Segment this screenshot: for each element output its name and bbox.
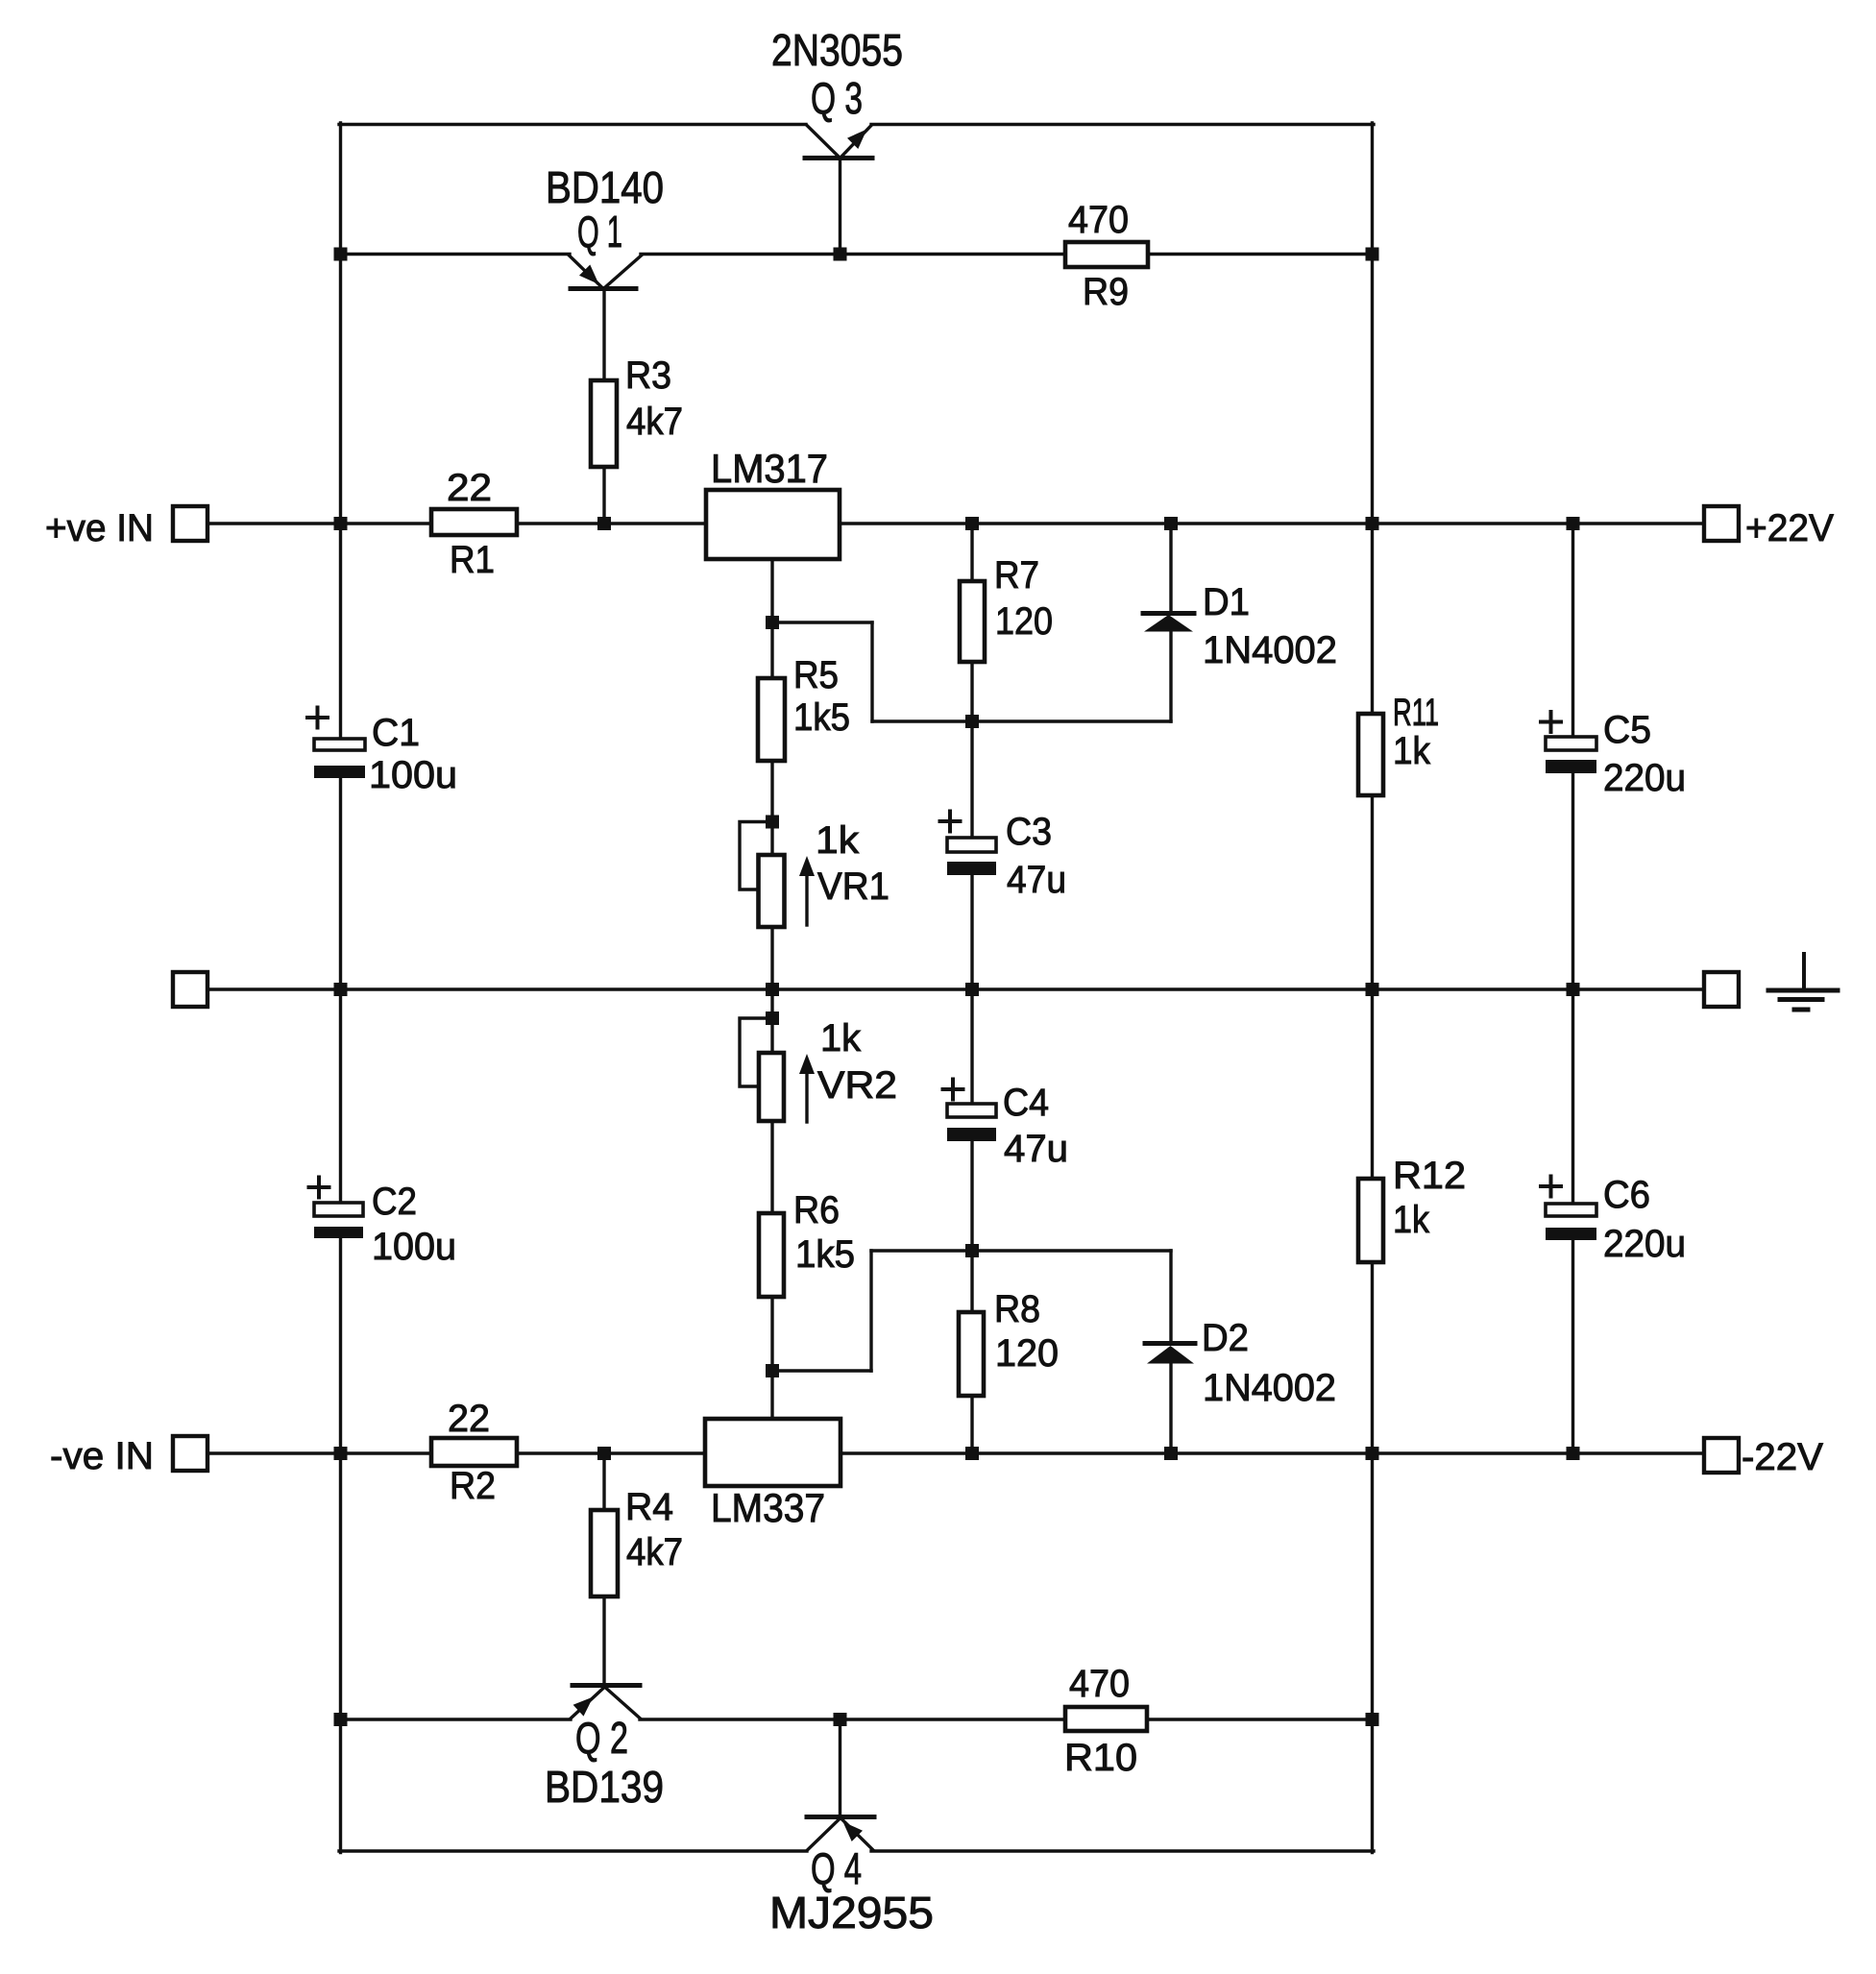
svg-text:R6: R6 <box>793 1189 840 1231</box>
svg-text:R2: R2 <box>450 1465 496 1507</box>
svg-text:1N4002: 1N4002 <box>1203 629 1337 671</box>
svg-text:Q 3: Q 3 <box>811 73 863 123</box>
svg-text:220u: 220u <box>1603 757 1686 799</box>
wire left vertical rail middle (C1 to C2) <box>339 778 342 1203</box>
svg-text:-22V: -22V <box>1742 1436 1823 1478</box>
wire elbow down to D2 cathode <box>1169 1251 1172 1342</box>
ground symbol <box>1768 954 1838 1010</box>
diode D1 1N4002 <box>1143 614 1194 632</box>
wire left vertical rail upper (top corner to C1) <box>339 123 342 739</box>
wire -ve IN rail to R4 <box>602 1453 605 1510</box>
svg-text:100u: 100u <box>369 754 457 796</box>
potentiometer VR1 1k <box>740 822 815 928</box>
svg-text:100u: 100u <box>372 1226 456 1268</box>
wire fifth rail right segment (Q2 collector to R10 to right rail) <box>640 1718 1374 1720</box>
wire R4 to Q2 base <box>602 1596 605 1686</box>
svg-text:Q 1: Q 1 <box>577 207 622 256</box>
wire top rail left segment (Q3 collector rail) <box>339 123 806 126</box>
svg-text:1k: 1k <box>1393 730 1431 772</box>
svg-text:C3: C3 <box>1006 811 1052 853</box>
capacitor C1 100u <box>307 708 365 779</box>
svg-text:2N3055: 2N3055 <box>771 25 903 75</box>
wire ADJ elbow horizontal lower <box>772 1369 871 1372</box>
svg-text:R11: R11 <box>1393 692 1439 734</box>
svg-text:22: 22 <box>447 467 492 509</box>
svg-text:4k7: 4k7 <box>626 1531 683 1573</box>
wire -ve IN rail (net -IN / LM337 row) <box>207 1451 1704 1454</box>
svg-text:C5: C5 <box>1603 709 1651 751</box>
junction dot VR2 top node <box>766 1011 779 1025</box>
svg-text:VR2: VR2 <box>817 1064 897 1107</box>
resistor R12 1k <box>1358 1179 1383 1262</box>
svg-text:+ve IN: +ve IN <box>45 507 154 549</box>
wire right vertical rail (top corner to bottom corner) <box>1371 123 1374 1853</box>
terminal ground output <box>1704 972 1739 1007</box>
svg-text:D2: D2 <box>1202 1317 1249 1359</box>
svg-text:R4: R4 <box>625 1486 673 1528</box>
svg-text:120: 120 <box>995 600 1053 643</box>
transistor Q2 BD139 symbol <box>571 1686 641 1719</box>
wire +22V rail to R7 <box>970 524 973 581</box>
wire node junction horizontal lower (to R8 top and D2 anode) <box>871 1249 1171 1252</box>
resistor R7 120 <box>960 581 985 662</box>
resistor R10 470 <box>1065 1707 1147 1731</box>
svg-text:BD140: BD140 <box>546 162 664 212</box>
wire second rail left segment (to Q1 emitter) <box>339 253 570 256</box>
svg-text:1k: 1k <box>816 819 860 862</box>
terminal +22V output <box>1704 506 1739 541</box>
svg-text:Q 2: Q 2 <box>575 1713 628 1763</box>
svg-text:D1: D1 <box>1203 581 1250 623</box>
transistor Q1 BD140 symbol <box>570 256 642 289</box>
wire C5 branch lower (C5 to ground rail) <box>1571 773 1574 989</box>
diode D2 1N4002 <box>1145 1344 1195 1364</box>
svg-text:R8: R8 <box>994 1288 1040 1330</box>
wire C5 branch upper (+22V rail to C5) <box>1571 524 1574 738</box>
capacitor C4 47u <box>943 1080 997 1142</box>
svg-text:1k: 1k <box>820 1017 862 1060</box>
capacitor C5 220u <box>1541 712 1596 773</box>
junction dot LM317 ADJ node <box>766 616 779 629</box>
svg-text:-ve IN: -ve IN <box>50 1435 154 1477</box>
wire ground rail (net 0V) <box>207 987 1704 990</box>
wire fifth rail left segment (to Q2 emitter) <box>339 1718 571 1720</box>
wire D1 anode down to elbow <box>1169 630 1172 721</box>
svg-text:47u: 47u <box>1007 859 1066 901</box>
terminal -22V output <box>1704 1438 1739 1473</box>
svg-text:47u: 47u <box>1004 1128 1068 1170</box>
svg-text:120: 120 <box>995 1332 1059 1375</box>
capacitor C6 220u <box>1541 1177 1596 1241</box>
wire C6 branch upper (ground rail to C6) <box>1571 989 1574 1204</box>
resistor R9 470 <box>1065 242 1148 267</box>
regulator U1 LM317 box <box>706 490 840 559</box>
resistor R8 120 <box>959 1312 984 1396</box>
wire C3 to ground rail <box>970 875 973 989</box>
transistor Q3 2N3055 symbol <box>805 126 872 158</box>
wire +ve IN rail (net +IN / LM317 row) <box>207 522 1704 524</box>
svg-text:C2: C2 <box>372 1181 417 1223</box>
wire left vertical rail lower (C2 to bottom corner) <box>339 1238 342 1853</box>
svg-text:1k5: 1k5 <box>795 1233 855 1276</box>
junction dots -ve IN rail <box>334 1447 348 1460</box>
wire top rail right segment (Q3 emitter rail) <box>871 123 1374 126</box>
svg-text:VR1: VR1 <box>817 865 889 908</box>
transistor Q4 MJ2955 symbol <box>807 1817 874 1850</box>
svg-text:1N4002: 1N4002 <box>1203 1367 1336 1409</box>
junction dots +ve IN rail <box>334 517 348 530</box>
junction dot R7/C3/D1 node <box>965 715 979 728</box>
svg-text:R9: R9 <box>1083 271 1129 313</box>
junction dot R8/C4/D2 node <box>965 1244 979 1257</box>
wire R8 to -ve IN rail <box>970 1251 973 1453</box>
svg-text:Q 4: Q 4 <box>811 1843 862 1893</box>
wire ground rail to C4 <box>970 989 973 1104</box>
wire C4 to R8 node <box>970 1141 973 1251</box>
terminal left common <box>173 972 207 1007</box>
wire VR2 R6 branch (ground to LM337 ADJ pin) <box>770 989 773 1419</box>
wire second rail right segment (Q1 collector to R9 to right rail) <box>641 253 1374 256</box>
svg-text:1k5: 1k5 <box>793 696 850 739</box>
terminal -ve IN <box>173 1436 207 1471</box>
capacitor C2 100u <box>309 1178 364 1239</box>
svg-text:220u: 220u <box>1603 1223 1686 1265</box>
svg-text:C1: C1 <box>372 712 420 754</box>
wire +22V rail to D1 cathode <box>1169 524 1172 612</box>
resistor R1 22 ohm <box>431 509 517 535</box>
wire node junction horizontal upper (to R7 bottom and D1 anode) <box>872 719 1171 722</box>
wire LM317 ADJ pin branch (through R5 and VR1 to ground) <box>770 559 773 989</box>
junction dots second rail <box>334 248 348 261</box>
svg-text:C6: C6 <box>1603 1174 1650 1216</box>
svg-text:R3: R3 <box>625 354 671 397</box>
svg-text:LM317: LM317 <box>711 446 828 491</box>
resistor R11 1k <box>1358 714 1383 795</box>
svg-text:LM337: LM337 <box>711 1485 825 1530</box>
svg-text:R1: R1 <box>450 539 495 581</box>
wire ADJ elbow horizontal upper <box>772 621 872 623</box>
wire R3 to +ve IN rail <box>602 467 605 524</box>
capacitor C3 47u <box>940 812 997 876</box>
svg-text:470: 470 <box>1068 199 1129 241</box>
wire D2 anode to -ve IN rail <box>1169 1363 1172 1453</box>
wire R7 to C3 node <box>970 664 973 838</box>
junction dot LM337 ADJ node <box>766 1364 779 1377</box>
wire ADJ elbow vertical upper <box>870 622 873 721</box>
svg-text:470: 470 <box>1069 1663 1130 1705</box>
svg-text:R10: R10 <box>1064 1737 1137 1779</box>
svg-text:1k: 1k <box>1393 1199 1430 1241</box>
regulator U2 LM337 box <box>705 1419 841 1486</box>
wire Q3 base to second rail <box>839 158 841 255</box>
resistor R3 4k7 <box>591 380 617 467</box>
wire bottom rail right segment (Q4 rail) <box>871 1849 1374 1852</box>
svg-text:BD139: BD139 <box>545 1762 664 1812</box>
junction dots fifth rail <box>334 1713 348 1726</box>
svg-text:22: 22 <box>448 1398 490 1440</box>
svg-text:R7: R7 <box>994 554 1039 597</box>
svg-text:4k7: 4k7 <box>626 401 683 443</box>
terminal +ve IN <box>173 506 207 541</box>
resistor R4 4k7 <box>591 1510 618 1596</box>
resistor R2 22 ohm <box>431 1438 517 1466</box>
wire Q1 base to R3 <box>602 288 605 381</box>
svg-text:MJ2955: MJ2955 <box>769 1888 934 1937</box>
resistor R6 1k5 <box>759 1213 784 1297</box>
svg-text:C4: C4 <box>1003 1082 1049 1124</box>
junction dots ground rail <box>334 983 348 996</box>
svg-text:R12: R12 <box>1393 1155 1466 1197</box>
wire bottom rail left segment (Q4 rail) <box>339 1849 807 1852</box>
junction dot VR1 top node <box>766 816 779 829</box>
resistor R5 1k5 <box>758 678 785 761</box>
wire fifth rail to Q4 base <box>839 1719 841 1817</box>
svg-text:+22V: +22V <box>1745 507 1834 549</box>
svg-text:R5: R5 <box>793 654 839 696</box>
wire C6 branch lower (C6 to -22V rail) <box>1571 1240 1574 1453</box>
wire ADJ elbow vertical lower <box>869 1251 872 1371</box>
potentiometer VR2 1k <box>740 1018 815 1122</box>
